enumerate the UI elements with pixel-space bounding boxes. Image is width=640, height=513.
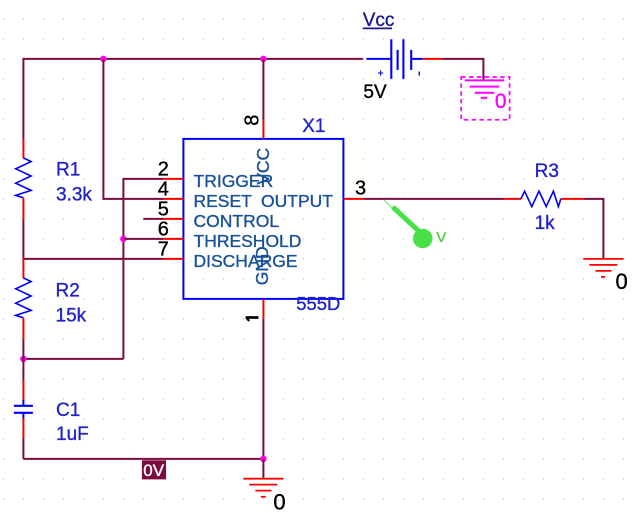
- wire pin 1 GND down to bottom junction: [262, 318, 264, 459]
- wire from top rail down to pin 4 RESET: [103, 59, 163, 199]
- svg-text:3.3k: 3.3k: [56, 185, 92, 206]
- node junction at (263,59): [260, 56, 267, 63]
- svg-text:1k: 1k: [535, 213, 556, 234]
- svg-text:0: 0: [616, 269, 628, 294]
- label R1 3.3k: [56, 160, 92, 206]
- battery V1 Vcc 5V: [366, 39, 442, 79]
- pin 5 stub: [163, 218, 183, 220]
- svg-text:5V: 5V: [363, 82, 387, 103]
- wire pin 2 TRIGGER to vertical bus: [123, 179, 163, 359]
- svg-text:THRESHOLD: THRESHOLD: [194, 231, 302, 251]
- pin 4 stub: [163, 198, 183, 200]
- wire bottom junction to ground: [262, 459, 264, 479]
- pin 8 stub: [262, 120, 264, 139]
- wire pin 8 VCC drop from top rail: [262, 59, 264, 120]
- node junction at (23,359): [20, 356, 27, 363]
- pin 1 stub: [262, 299, 264, 318]
- svg-text:2: 2: [158, 159, 169, 181]
- svg-text:R2: R2: [56, 280, 80, 301]
- svg-text:VCC: VCC: [253, 148, 273, 185]
- resistor R1: [16, 139, 31, 219]
- node junction at (123,239): [120, 236, 127, 243]
- svg-text:15k: 15k: [56, 305, 87, 326]
- svg-text:R1: R1: [56, 160, 80, 181]
- net voltage label 0V: [142, 460, 166, 480]
- resistor R2: [16, 259, 31, 339]
- label R3 1k: [535, 161, 559, 234]
- ground at battery (selected): [461, 77, 509, 120]
- resistor R3: [503, 191, 583, 206]
- svg-text:1uF: 1uF: [56, 424, 89, 445]
- svg-text:CONTROL: CONTROL: [194, 211, 280, 231]
- node junction at (263,459): [260, 456, 267, 463]
- wire battery to top right ground: [442, 59, 483, 80]
- wire left rail between R1 and R2: [22, 219, 24, 259]
- net label Vcc: [363, 10, 395, 31]
- svg-text:DISCHARGE: DISCHARGE: [194, 251, 298, 271]
- wire pin 5 CONTROL stub: [143, 218, 163, 220]
- svg-text:X1: X1: [302, 116, 325, 137]
- label C1 1uF: [56, 400, 89, 445]
- IC X1 555D timer body: [183, 139, 343, 299]
- wire pin 7 DISCHARGE to left rail: [23, 258, 163, 260]
- ground at right: [583, 259, 623, 277]
- wire left rail upper segment (top rail to R1): [22, 58, 24, 139]
- svg-text:GND: GND: [252, 246, 272, 285]
- pin 6 stub: [163, 238, 183, 240]
- svg-text:4: 4: [158, 179, 169, 201]
- probe V on output wire: [384, 200, 446, 248]
- wire horizontal bus to left rail at y=359: [23, 358, 123, 360]
- wire pin 6 THRESHOLD to vertical bus: [123, 238, 163, 240]
- svg-text:OUTPUT: OUTPUT: [261, 191, 333, 211]
- wire left rail junction to C1: [22, 359, 24, 380]
- ground at bottom: [243, 479, 283, 497]
- node junction at (103,59): [100, 56, 107, 63]
- pin 7 stub: [163, 258, 183, 260]
- svg-text:3: 3: [355, 178, 366, 200]
- wire pin 3 OUTPUT to R3: [363, 198, 504, 200]
- svg-text:8: 8: [242, 115, 264, 126]
- svg-text:6: 6: [158, 219, 169, 241]
- svg-text:0: 0: [495, 90, 507, 113]
- pin number 1 rotated: [246, 318, 259, 322]
- svg-text:0V: 0V: [143, 461, 164, 480]
- wire left rail C1 to bottom rail: [22, 438, 24, 459]
- svg-text:5: 5: [158, 199, 169, 221]
- svg-text:555D: 555D: [296, 293, 340, 314]
- svg-text:RESET: RESET: [194, 191, 253, 211]
- label R2 15k: [56, 280, 87, 326]
- svg-text:C1: C1: [56, 400, 80, 421]
- wire R3 to right ground: [583, 199, 603, 259]
- pin 2 stub: [163, 178, 183, 180]
- pin 3 stub: [343, 198, 363, 200]
- wire left rail between R2 and junction: [22, 339, 24, 359]
- wire top rail from left rail to battery: [23, 58, 363, 60]
- svg-text:R3: R3: [535, 161, 559, 182]
- svg-text:7: 7: [158, 239, 169, 261]
- svg-text:V: V: [436, 229, 446, 246]
- capacitor C1: [14, 380, 33, 439]
- svg-text:0: 0: [273, 490, 285, 513]
- wire bottom rail: [23, 458, 263, 460]
